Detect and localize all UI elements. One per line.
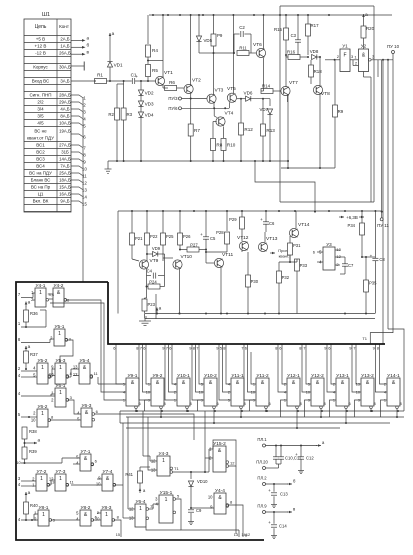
svg-text:10А,Б: 10А,Б xyxy=(59,121,71,126)
resistor R25 xyxy=(162,211,164,233)
resistor R39 xyxy=(22,447,27,459)
svg-text:С5: С5 xyxy=(210,236,216,241)
IC U2 output to PU10 xyxy=(369,59,372,62)
svg-text:Корпус: Корпус xyxy=(33,65,48,70)
svg-text:а: а xyxy=(87,36,90,41)
svg-text:У11-1: У11-1 xyxy=(231,373,244,379)
svg-text:2/2: 2/2 xyxy=(37,100,44,105)
wire +5V to arrow a xyxy=(71,39,82,41)
gate У11-1 xyxy=(231,378,244,406)
gate U7-3 xyxy=(55,474,66,491)
gate U6-4 xyxy=(135,504,146,527)
svg-text:VT10: VT10 xyxy=(181,254,193,260)
svg-text:С1: С1 xyxy=(131,73,137,78)
svg-text:14А,Б: 14А,Б xyxy=(59,157,71,162)
svg-text:VD8: VD8 xyxy=(310,49,319,54)
gate U4-3 xyxy=(157,456,170,476)
wire T1 from PU10 column down to unit xyxy=(370,60,393,344)
svg-text:ВС на ПДУ: ВС на ПДУ xyxy=(29,171,52,176)
svg-text:19А,Б: 19А,Б xyxy=(59,129,71,134)
wire PU6 emitter bus xyxy=(182,107,229,109)
svg-text:R12: R12 xyxy=(244,127,253,132)
svg-text:3/4: 3/4 xyxy=(37,107,44,112)
svg-text:С7: С7 xyxy=(348,263,354,268)
svg-text:У7-1: У7-1 xyxy=(81,449,91,455)
thin unit box around U1 U2 section xyxy=(280,5,374,7)
diode VD6 xyxy=(246,96,251,101)
wire U8-3 output to border xyxy=(115,520,121,537)
svg-text:VD4: VD4 xyxy=(145,113,154,118)
svg-text:У4-4: У4-4 xyxy=(215,488,225,494)
svg-text:+: + xyxy=(200,232,203,237)
svg-text:10: 10 xyxy=(31,418,36,423)
svg-text:Р29: Р29 xyxy=(229,217,237,222)
svg-text:У6-2: У6-2 xyxy=(38,404,48,410)
svg-text:У5-2: У5-2 xyxy=(38,358,48,364)
svg-text:R10: R10 xyxy=(227,143,236,148)
svg-text:ВС1: ВС1 xyxy=(36,143,45,148)
gate U8-3 xyxy=(101,510,112,526)
svg-text:1: 1 xyxy=(105,512,108,518)
svg-text:+: + xyxy=(268,488,271,493)
svg-text:R16: R16 xyxy=(287,50,296,55)
resistor R9 xyxy=(213,15,215,34)
gate У10-1 xyxy=(177,378,190,406)
svg-text:R39: R39 xyxy=(29,449,37,454)
svg-text:+: + xyxy=(260,217,263,222)
svg-text:У5-4: У5-4 xyxy=(80,358,90,364)
svg-text:Р22: Р22 xyxy=(150,234,158,239)
svg-text:а: а xyxy=(28,490,31,495)
gate U6-2 xyxy=(37,409,48,427)
svg-text:15: 15 xyxy=(116,533,120,537)
terminal PU11 xyxy=(381,212,383,218)
svg-text:+5 В: +5 В xyxy=(36,37,45,42)
svg-text:а: а xyxy=(112,31,115,36)
svg-text:Р33: Р33 xyxy=(300,263,308,268)
svg-text:ПУ/6: ПУ/6 xyxy=(168,106,178,111)
svg-text:б: б xyxy=(87,43,90,48)
svg-text:1: 1 xyxy=(58,331,61,337)
wires transistor VT7 VT8 emitters xyxy=(287,95,289,168)
resistor R21 xyxy=(131,211,133,233)
svg-text:У13-1: У13-1 xyxy=(336,373,349,379)
wire PU3 to VT3 base xyxy=(182,98,207,100)
svg-text:VD1: VD1 xyxy=(114,63,123,68)
svg-text:1: 1 xyxy=(139,506,142,512)
svg-text:VD10: VD10 xyxy=(197,479,208,484)
gate U8-1 xyxy=(38,510,49,526)
svg-text:а: а xyxy=(28,344,31,349)
capacitor C3 xyxy=(295,39,301,41)
svg-text:26А,Б: 26А,Б xyxy=(59,51,71,56)
wires from bus to U15-2 xyxy=(204,411,206,472)
resistor R17 xyxy=(307,15,309,24)
svg-text:У9-2: У9-2 xyxy=(153,373,163,379)
transistor VT2 xyxy=(184,84,193,93)
gate U15-1 xyxy=(159,495,173,523)
svg-text:1: 1 xyxy=(42,512,45,518)
svg-text:ПУ/3: ПУ/3 xyxy=(168,96,178,101)
gate U7-2 xyxy=(36,474,47,491)
svg-text:-12 В: -12 В xyxy=(35,51,46,56)
svg-text:R2: R2 xyxy=(108,112,114,117)
svg-text:У10-1: У10-1 xyxy=(177,373,190,379)
svg-text:У12-2: У12-2 xyxy=(311,373,324,379)
svg-text:У7-3: У7-3 xyxy=(56,469,66,475)
gate U4-2 xyxy=(53,288,64,307)
svg-text:Р30: Р30 xyxy=(251,279,259,284)
wire R2 R3 down xyxy=(123,81,125,108)
svg-text:Цепь: Цепь xyxy=(35,24,47,30)
capacitor C13 xyxy=(273,484,275,492)
resistor R10 xyxy=(221,139,226,151)
svg-text:+: + xyxy=(295,452,298,457)
svg-text:R38: R38 xyxy=(29,429,37,434)
resistor R8 xyxy=(211,139,216,151)
gate U5-4 xyxy=(79,363,90,384)
svg-text:10: 10 xyxy=(96,482,101,487)
svg-text:У10-2: У10-2 xyxy=(204,373,217,379)
transistor VT10 xyxy=(173,260,182,269)
svg-text:У8-1: У8-1 xyxy=(39,505,49,511)
svg-text:R41: R41 xyxy=(125,472,133,477)
wire to VT4 xyxy=(213,108,215,116)
resistor R36 xyxy=(25,302,27,307)
svg-text:VT13: VT13 xyxy=(266,236,278,242)
svg-text:Р31: Р31 xyxy=(293,243,301,248)
resistor R41 xyxy=(138,471,143,483)
top rail +supply xyxy=(149,14,392,16)
connector XS1 rows xyxy=(24,42,71,44)
svg-text:4А,Б: 4А,Б xyxy=(60,107,69,112)
gate У12-2 xyxy=(311,378,324,406)
resistor R35 xyxy=(364,280,369,292)
wire +12V to arrow b xyxy=(71,46,82,48)
riser wires from bus to gate bottom pins xyxy=(281,400,285,417)
svg-text:+6,3В: +6,3В xyxy=(346,215,358,220)
svg-text:R40: R40 xyxy=(30,503,38,508)
transistor VT5 xyxy=(227,93,236,102)
svg-text:Р32: Р32 xyxy=(282,275,290,280)
svg-text:9А,Б: 9А,Б xyxy=(60,199,69,204)
ground rail top section xyxy=(108,160,289,162)
wire U7-4 output right xyxy=(116,484,123,486)
transistor VT7 xyxy=(281,86,290,95)
wires from bus to U4-3 xyxy=(142,411,144,456)
svg-text:У12-1: У12-1 xyxy=(287,373,300,379)
gate У13-1 xyxy=(336,378,349,406)
svg-text:13: 13 xyxy=(234,533,238,537)
svg-text:ПУ 11: ПУ 11 xyxy=(377,223,389,228)
svg-text:VT6: VT6 xyxy=(253,42,262,48)
svg-text:Р35: Р35 xyxy=(369,281,377,286)
terminal PU10 xyxy=(392,54,394,60)
svg-text:ПЛ.9: ПЛ.9 xyxy=(257,504,267,509)
svg-text:ВС2: ВС2 xyxy=(36,150,45,155)
svg-text:VT4: VT4 xyxy=(225,111,234,117)
svg-text:10: 10 xyxy=(208,495,213,500)
svg-text:30А,Б: 30А,Б xyxy=(59,65,71,70)
svg-text:27А,Б: 27А,Б xyxy=(59,143,71,148)
svg-text:Вкл. ВК: Вкл. ВК xyxy=(33,199,49,204)
svg-text:R18: R18 xyxy=(314,69,323,74)
resistor R33 xyxy=(295,259,300,271)
svg-text:Сигн. ПНП: Сигн. ПНП xyxy=(29,93,51,98)
svg-text:Ш1: Ш1 xyxy=(42,12,50,18)
svg-text:12: 12 xyxy=(49,477,54,482)
svg-text:У8-2: У8-2 xyxy=(81,505,91,511)
capacitor C12 xyxy=(298,456,304,458)
svg-text:18А,Б: 18А,Б xyxy=(59,178,71,183)
resistor R3 xyxy=(121,108,126,120)
svg-text:25А,Б: 25А,Б xyxy=(59,171,71,176)
chassis ground left xyxy=(107,161,109,169)
diode VD7 xyxy=(269,99,271,106)
transistor VT12 xyxy=(239,241,248,250)
svg-text:+: + xyxy=(268,520,271,525)
diode VD10 xyxy=(190,472,192,479)
transistor VT14 xyxy=(289,228,298,237)
capacitor C14 xyxy=(273,512,275,524)
vertical wire bundle from analog sections to gate row xyxy=(115,344,117,352)
svg-text:1: 1 xyxy=(40,476,43,482)
long wires right side down xyxy=(377,60,379,77)
capacitor C8 xyxy=(372,257,378,259)
svg-text:У13-2: У13-2 xyxy=(361,373,374,379)
gate U6-3 xyxy=(81,408,92,427)
svg-text:Бланк ВС: Бланк ВС xyxy=(31,178,52,183)
resistor R1 xyxy=(95,79,107,84)
resistor R23 xyxy=(142,299,147,311)
gate У9-1 xyxy=(126,378,139,406)
svg-text:R3: R3 xyxy=(127,112,133,117)
svg-text:ВС3: ВС3 xyxy=(36,157,45,162)
resistor R37 xyxy=(25,346,27,351)
svg-text:У7-4: У7-4 xyxy=(103,469,113,475)
capacitors C10 C11 xyxy=(273,456,279,458)
wire U15-1 output down xyxy=(176,499,239,530)
svg-text:VT14: VT14 xyxy=(298,222,310,228)
svg-text:ПУ 10: ПУ 10 xyxy=(387,44,400,49)
svg-text:31Б: 31Б xyxy=(61,150,69,155)
ground symbol mid rail xyxy=(144,319,146,322)
middle rail top xyxy=(118,210,382,212)
svg-text:С13: С13 xyxy=(280,492,288,497)
gate U5-3 xyxy=(55,363,66,384)
terminal PU6 xyxy=(179,107,182,110)
svg-text:ВС4: ВС4 xyxy=(36,164,45,169)
svg-text:R14: R14 xyxy=(262,84,271,89)
svg-text:а: а xyxy=(38,438,41,443)
svg-text:Р27: Р27 xyxy=(190,243,198,248)
svg-text:У4-1: У4-1 xyxy=(36,283,46,289)
svg-text:а: а xyxy=(365,12,368,17)
gate U4-1 xyxy=(35,288,46,307)
svg-text:Р34: Р34 xyxy=(348,223,356,228)
svg-text:Р26: Р26 xyxy=(183,234,191,239)
resistor R13 xyxy=(262,99,264,124)
bus wire from table down to logic box xyxy=(82,97,84,282)
svg-text:28А,Б: 28А,Б xyxy=(59,93,71,98)
gate У9-2 xyxy=(151,378,164,406)
svg-text:С3: С3 xyxy=(291,33,297,38)
diode VD8 xyxy=(312,54,317,59)
power arrow a left xyxy=(109,33,111,38)
svg-text:а: а xyxy=(28,300,31,305)
svg-text:VD2: VD2 xyxy=(145,91,154,96)
svg-text:У1: У1 xyxy=(342,44,348,49)
diode VD1 zener xyxy=(107,62,112,67)
svg-text:У8-3: У8-3 xyxy=(102,505,112,511)
resistor R14 xyxy=(261,89,273,94)
gate U8-2 xyxy=(80,510,91,526)
transistor VT8 xyxy=(313,85,322,94)
svg-text:VT2: VT2 xyxy=(192,78,201,84)
svg-text:F: F xyxy=(343,53,346,59)
svg-text:VD9: VD9 xyxy=(152,246,161,251)
svg-text:VT5: VT5 xyxy=(227,86,236,92)
svg-text:VT7: VT7 xyxy=(289,80,298,86)
wire Korpus to chassis ground xyxy=(71,65,84,67)
wire U4-4 output down xyxy=(229,505,243,534)
svg-text:1А,Б: 1А,Б xyxy=(60,44,69,49)
svg-text:Р25: Р25 xyxy=(166,234,174,239)
gate У13-2 xyxy=(361,378,374,406)
connector XS1 table frame xyxy=(24,19,71,212)
resistor R20 xyxy=(363,14,365,19)
wire from U2 down xyxy=(363,72,365,78)
bus verticals xyxy=(119,411,121,423)
svg-text:У3: У3 xyxy=(326,242,332,247)
svg-text:8А,Б: 8А,Б xyxy=(60,114,69,119)
resistor R16 xyxy=(288,55,300,60)
svg-text:R9: R9 xyxy=(338,109,344,114)
svg-text:Конт: Конт xyxy=(59,24,70,29)
svg-text:3,4: 3,4 xyxy=(49,292,55,297)
capacitor C6 xyxy=(263,221,269,223)
gate U7-1 xyxy=(80,454,91,471)
resistor R18 xyxy=(309,65,314,77)
diode VD5 xyxy=(198,15,200,36)
svg-text:У6-1: У6-1 xyxy=(56,383,66,389)
bottom crossing wires numbers xyxy=(238,530,240,537)
svg-text:Т1: Т1 xyxy=(174,466,179,471)
svg-text:10: 10 xyxy=(49,372,54,377)
svg-text:VT1: VT1 xyxy=(164,70,173,76)
svg-text:У6-4: У6-4 xyxy=(136,499,146,505)
transistor VT1 xyxy=(155,76,164,85)
svg-text:С2: С2 xyxy=(239,25,245,30)
svg-text:У7-2: У7-2 xyxy=(37,469,47,475)
svg-text:R37: R37 xyxy=(30,352,38,357)
svg-text:7А,Б: 7А,Б xyxy=(60,164,69,169)
wire VT7 collector xyxy=(285,55,287,87)
resistor R26 xyxy=(179,211,181,233)
resistor R12 xyxy=(240,99,242,123)
svg-text:10: 10 xyxy=(95,517,100,522)
middle section left edge wire xyxy=(117,211,119,314)
wire U4-3 out bus xyxy=(173,471,209,473)
transistor VT11 xyxy=(214,258,223,267)
svg-text:Р9: Р9 xyxy=(217,33,223,38)
resistor R29 xyxy=(241,211,243,217)
terminal PU3 xyxy=(179,97,182,100)
svg-text:2А,Б: 2А,Б xyxy=(60,37,69,42)
svg-text:Прог.: Прог. xyxy=(278,248,287,253)
svg-text:12: 12 xyxy=(230,461,235,466)
svg-text:С14: С14 xyxy=(279,524,287,529)
wire U15-2 loop xyxy=(213,440,236,466)
resistor R6 xyxy=(165,86,177,91)
resistor R4 xyxy=(147,15,149,44)
capacitor C5 xyxy=(203,236,209,238)
gate У10-2 xyxy=(204,378,217,406)
IC U3 xyxy=(323,247,335,270)
svg-text:R7: R7 xyxy=(194,128,200,133)
svg-text:4/5: 4/5 xyxy=(37,121,44,126)
svg-text:Р28: Р28 xyxy=(216,230,224,235)
wire U5-1 out down xyxy=(60,340,73,363)
resistor R11 xyxy=(233,34,235,53)
svg-text:С4: С4 xyxy=(147,269,153,274)
resistor R7 xyxy=(190,99,192,125)
resistor R38 xyxy=(22,427,27,439)
transistor VT9 xyxy=(139,260,148,269)
resistor R2 xyxy=(115,108,120,120)
wire Vhod VS xyxy=(71,80,96,82)
gate У12-1 xyxy=(287,378,300,406)
svg-text:1: 1 xyxy=(41,411,44,417)
svg-text:У11-2: У11-2 xyxy=(256,373,269,379)
svg-text:1: 1 xyxy=(59,390,62,396)
svg-text:16А,Б: 16А,Б xyxy=(59,192,71,197)
gate У14-1 xyxy=(387,378,400,406)
svg-text:VD3: VD3 xyxy=(145,102,154,107)
svg-text:R11: R11 xyxy=(239,46,247,51)
transistor VT3 xyxy=(207,94,216,103)
resistor R32 xyxy=(277,271,282,283)
svg-text:R20: R20 xyxy=(366,26,375,31)
wire U4-2 output down to gate U9-1 xyxy=(67,300,123,392)
svg-text:1: 1 xyxy=(39,290,42,296)
resistor R31 xyxy=(288,243,293,255)
gate U5-1 xyxy=(54,329,65,346)
svg-text:1: 1 xyxy=(41,365,44,371)
gate У11-2 xyxy=(256,378,269,406)
svg-text:квант.от ПДУ: квант.от ПДУ xyxy=(27,136,54,141)
gate U7-4 xyxy=(102,474,113,491)
diode chain VD2 VD3 VD4 xyxy=(140,81,142,90)
gate U6-1 xyxy=(55,388,66,407)
middle ground rail xyxy=(145,313,376,315)
wire U4-1 second output down to gate U9-1 xyxy=(50,303,123,400)
staircase wire to mid rail xyxy=(255,161,315,212)
wire bottom loop xyxy=(146,527,181,530)
svg-text:1: 1 xyxy=(165,497,168,503)
svg-text:ПЛ.2: ПЛ.2 xyxy=(257,476,267,481)
svg-text:У9-1: У9-1 xyxy=(128,373,138,379)
resistor R19 xyxy=(333,105,338,117)
wire into gate U9-1 top pin xyxy=(98,383,123,385)
svg-text:3А,Б: 3А,Б xyxy=(60,79,69,84)
svg-text:ПЛ.1: ПЛ.1 xyxy=(257,437,267,442)
svg-text:Вход ВС: Вход ВС xyxy=(32,79,50,84)
svg-text:10: 10 xyxy=(16,460,21,465)
gate U5-2 xyxy=(37,363,48,384)
svg-text:VT12: VT12 xyxy=(237,235,249,241)
wires sub area xyxy=(128,508,135,510)
